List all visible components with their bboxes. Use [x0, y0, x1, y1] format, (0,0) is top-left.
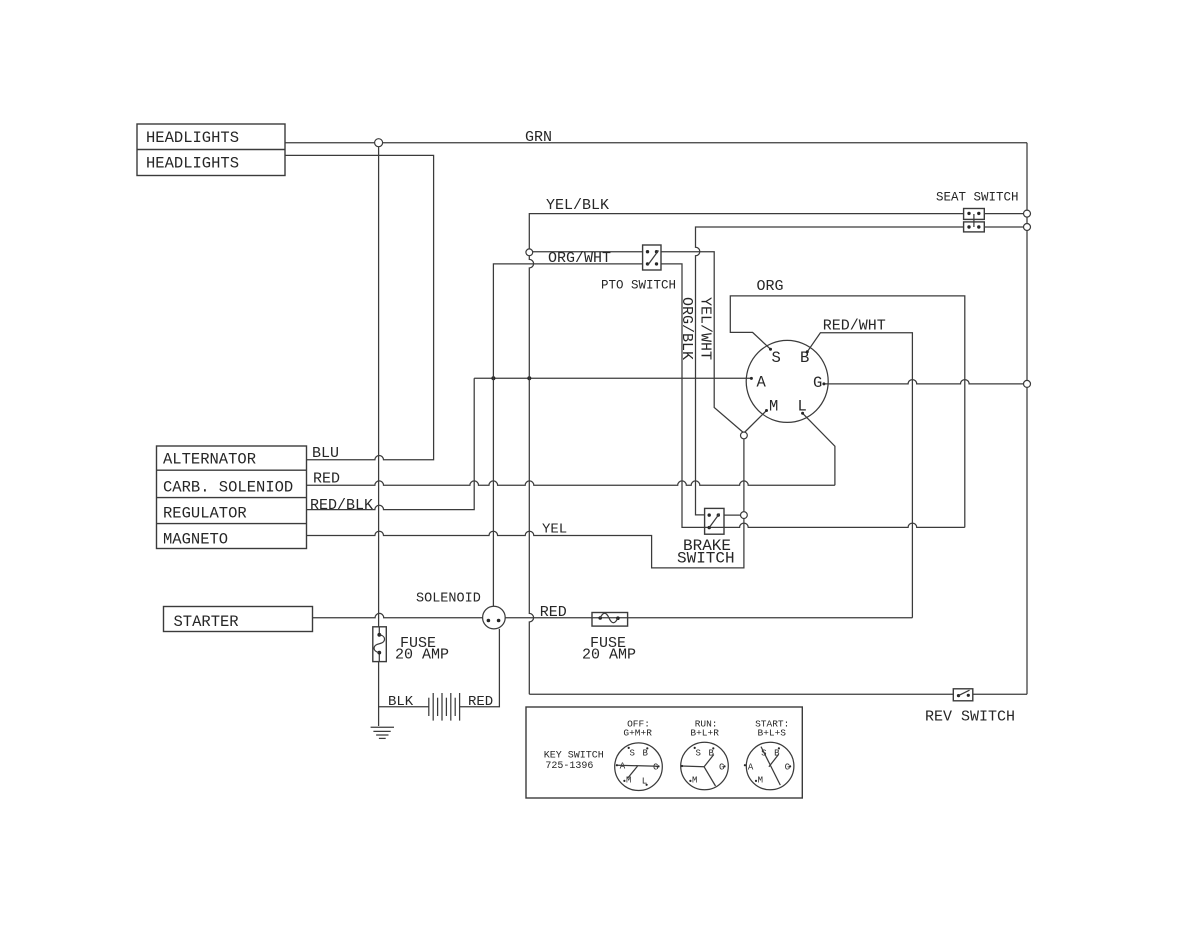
svg-text:RED/WHT: RED/WHT [823, 318, 886, 335]
svg-text:G+M+R: G+M+R [623, 727, 652, 738]
wire RED/BLK: regulator up to A-line [306, 378, 474, 509]
svg-text:M: M [758, 776, 763, 786]
svg-text:M: M [692, 776, 697, 786]
svg-text:SWITCH: SWITCH [677, 550, 735, 568]
svg-text:G: G [785, 762, 790, 772]
node: trunk connector circle lower (seat) [1024, 224, 1031, 231]
svg-text:G: G [813, 374, 822, 392]
wire ORG/BLK: PTO bottom-right down and across to ORG riser [661, 264, 965, 528]
svg-text:20 AMP: 20 AMP [582, 647, 636, 664]
switch: rev switch symbol [953, 689, 973, 701]
wire RED: carb solenoid to L terminal riser [306, 481, 835, 485]
node: GRN junction connector circle [375, 139, 383, 147]
svg-text:SEAT SWITCH: SEAT SWITCH [936, 191, 1019, 205]
svg-text:ORG/BLK: ORG/BLK [678, 297, 695, 360]
wire: headlight 1 to GRN junction [285, 142, 379, 144]
svg-text:REGULATOR: REGULATOR [163, 504, 247, 522]
svg-text:MAGNETO: MAGNETO [163, 530, 228, 548]
wire ORG/WHT: solenoid top up, corner right to PTO bottom-left [493, 264, 642, 606]
svg-text:STARTER: STARTER [174, 613, 239, 631]
wire: interlock feed from connector down to rev switch line [529, 256, 533, 695]
key switch U1: main circle [746, 340, 828, 422]
wire RED/WHT: B terminal diagonal, across, down to battery RED line [807, 333, 912, 618]
node: junction dot A-line / interlock riser [527, 376, 531, 380]
wire: battery positive up to solenoid [460, 629, 500, 707]
switch: PTO switch symbol [643, 245, 661, 270]
svg-text:YEL/WHT: YEL/WHT [696, 297, 713, 360]
node: M junction connector circle [741, 432, 748, 439]
svg-text:B+L+S: B+L+S [758, 727, 787, 738]
fuse F2 20 AMP symbol [592, 613, 628, 627]
svg-text:20 AMP: 20 AMP [395, 647, 449, 664]
svg-text:A: A [757, 374, 767, 392]
wire: connector to PTO switch top-left [533, 251, 643, 253]
wire: seat switch upper right to trunk circle [984, 213, 1027, 215]
node: trunk connector circle upper (YEL/BLK) [1024, 210, 1031, 217]
wire A-line: from RED/BLK riser to key switch A [474, 377, 751, 379]
svg-text:SOLENOID: SOLENOID [416, 592, 481, 607]
legend header START: B+L+S [755, 719, 789, 739]
svg-text:A: A [748, 762, 754, 772]
wire: brake switch right to brake junction circle [724, 514, 744, 516]
wire: ground trunk vertical from GRN junction down to ground [378, 143, 380, 726]
svg-text:BLK: BLK [388, 694, 414, 710]
wire: right trunk vertical [1026, 143, 1028, 695]
wire GRN from junction to right trunk corner [379, 142, 1027, 144]
key switch terminal labels and dots [750, 348, 826, 416]
component box HEADLIGHTS [137, 124, 285, 176]
legend box KEY SWITCH 725-1396 [526, 707, 802, 798]
solenoid: circle with contacts [483, 606, 506, 629]
component box STARTER [164, 607, 313, 632]
svg-text:CARB. SOLENIOD: CARB. SOLENIOD [163, 478, 293, 496]
node: brake junction connector circle [741, 512, 748, 519]
svg-text:S: S [696, 748, 701, 758]
legend circle RUN [681, 742, 729, 790]
svg-text:YEL/BLK: YEL/BLK [546, 197, 609, 214]
wire YEL: magneto around brake label box to brake junction [306, 518, 744, 568]
wire: M terminal diagonal to junction circle [744, 411, 767, 434]
svg-text:RED: RED [468, 694, 493, 710]
svg-text:RED: RED [540, 604, 567, 621]
svg-text:B: B [643, 748, 649, 758]
legend header OFF: G+M+R [623, 719, 652, 739]
svg-text:REV SWITCH: REV SWITCH [925, 709, 1015, 726]
svg-text:HEADLIGHTS: HEADLIGHTS [146, 129, 239, 147]
label FUSE 20 AMP (right) [582, 635, 636, 664]
svg-text:A: A [620, 762, 626, 772]
svg-text:B+L+R: B+L+R [690, 727, 719, 738]
svg-text:M: M [769, 398, 778, 416]
svg-text:BLU: BLU [312, 445, 339, 462]
ground symbol [371, 727, 394, 738]
label BRAKE SWITCH [677, 537, 735, 568]
wire: M junction down to brake junction [743, 435, 745, 512]
svg-text:G: G [719, 762, 724, 772]
svg-text:S: S [630, 748, 635, 758]
svg-text:ALTERNATOR: ALTERNATOR [163, 450, 256, 468]
wire: trunk to battery negative [379, 706, 429, 708]
wire: seat switch lower line to trunk circle [984, 226, 1027, 228]
legend circle START [744, 742, 794, 790]
svg-text:HEADLIGHTS: HEADLIGHTS [146, 154, 239, 172]
svg-text:725-1396: 725-1396 [545, 761, 593, 772]
wire RED: solenoid to fuse 2 to RED/WHT riser [505, 617, 912, 619]
node: junction dot A-line / ORG-WHT riser [491, 376, 495, 380]
wire YEL/BLK: corner down to connector, right to seat switch upper [529, 214, 963, 249]
wire: seat switch lower left / brake riser [696, 227, 964, 515]
wire: rev switch line [529, 693, 1027, 695]
legend header RUN: B+L+R [690, 719, 719, 739]
svg-text:GRN: GRN [525, 129, 552, 146]
wire: headlight 2 to BLU / alternator [285, 155, 434, 459]
battery symbol [429, 693, 460, 721]
legend circle OFF [615, 743, 663, 791]
switch: brake switch symbol [705, 508, 724, 534]
wire: PTO top-right to YEL/WHT riser [661, 252, 744, 433]
wire: L terminal diagonal down to RED line end [803, 413, 835, 485]
wire G-line: G terminal to trunk circle [824, 380, 1027, 384]
svg-text:RED/BLK: RED/BLK [310, 497, 373, 514]
component box ALTERNATOR / CARB. SOLENIOD / REGULATOR / MAGNETO [157, 446, 307, 549]
label FUSE 20 AMP (left) [395, 635, 449, 664]
fuse F1 20 AMP symbol (on ground trunk) [373, 627, 387, 662]
svg-text:S: S [772, 349, 781, 367]
node: trunk connector circle G-line [1024, 380, 1031, 387]
svg-text:ORG: ORG [757, 278, 784, 295]
switch: seat switch symbol [964, 209, 985, 232]
svg-text:G: G [653, 762, 658, 772]
wire ORG: riser up from bottom run, across and down to S terminal [730, 296, 965, 528]
wire: starter to solenoid [313, 613, 483, 617]
node: connector circle YEL/BLK-PTO-interlock [526, 249, 533, 256]
svg-text:PTO SWITCH: PTO SWITCH [601, 279, 676, 293]
